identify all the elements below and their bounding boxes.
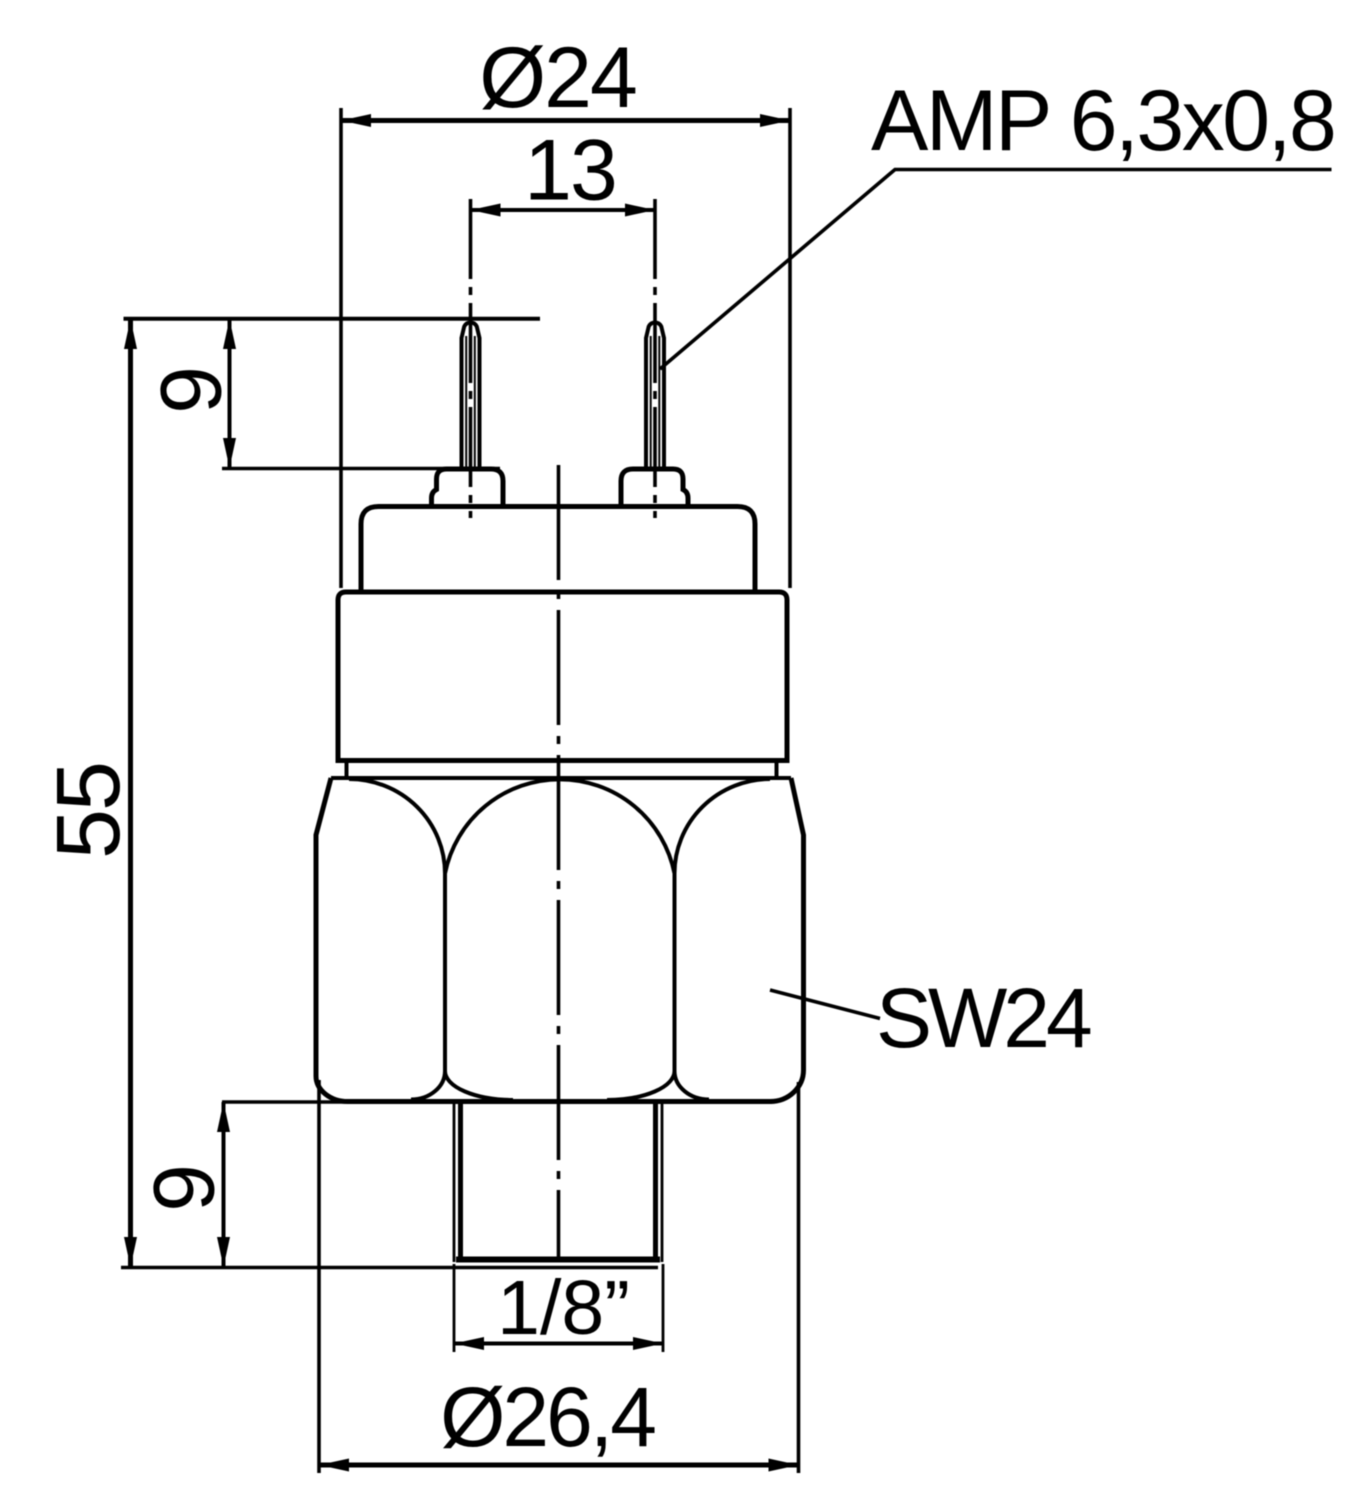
arrowhead 1/8 left	[454, 1337, 484, 1350]
thread core line left	[458, 1104, 463, 1259]
svg-text:AMP 6,3x0,8: AMP 6,3x0,8	[871, 73, 1334, 169]
dimension 9 bottom line	[222, 1102, 226, 1267]
dimension 1/8 line	[454, 1342, 663, 1346]
arrowhead Ø24 left	[341, 114, 371, 127]
hex face edge right	[673, 874, 677, 1072]
arrowhead 13 left	[471, 204, 501, 217]
arrowhead Ø24 right	[760, 114, 790, 127]
arrowhead Ø26,4 right	[769, 1459, 799, 1472]
hex face edge left	[443, 874, 447, 1072]
svg-text:Ø24: Ø24	[479, 30, 636, 126]
leader SW24	[770, 990, 880, 1019]
thread crest line right	[661, 1104, 664, 1262]
extension line top (9/55 upper)	[124, 317, 541, 321]
leader AMP	[660, 170, 1332, 370]
arrowhead 9 bottom down	[217, 1237, 230, 1267]
centerline right pin	[653, 199, 657, 518]
arrowhead 1/8 right	[633, 1337, 663, 1350]
flange band outline	[338, 592, 787, 761]
arrowhead Ø26,4 left	[319, 1459, 349, 1472]
dimension 1/8 extension lines	[454, 1264, 663, 1352]
hex bottom edge	[347, 1099, 772, 1104]
svg-text:Ø26,4: Ø26,4	[440, 1370, 655, 1464]
svg-text:1/8”: 1/8”	[497, 1265, 630, 1351]
dimension Ø24 line	[341, 118, 790, 123]
hex bottom arc left-left	[411, 1071, 445, 1100]
arrowhead 55 up	[124, 319, 137, 349]
pin right outline	[646, 323, 664, 470]
arrowhead 13 right	[625, 204, 655, 217]
pin left inner lines	[466, 336, 475, 469]
neck right	[775, 761, 779, 779]
svg-text:SW24: SW24	[876, 971, 1091, 1065]
svg-text:9: 9	[137, 1166, 233, 1212]
dimension 55 line	[128, 319, 133, 1267]
hex bottom arc left-right	[445, 1071, 513, 1100]
hex bottom arc right-left	[607, 1071, 675, 1100]
hex left outline	[316, 778, 348, 1102]
hex crown arc left	[349, 779, 445, 874]
arrowhead 9 top down	[223, 438, 236, 468]
thread crest line left	[453, 1104, 456, 1262]
hex top edge	[331, 776, 791, 780]
hex bottom arc right-right	[675, 1071, 710, 1100]
centerline main vertical axis	[557, 465, 561, 1261]
centerline left pin	[469, 199, 473, 518]
terminal boss left	[432, 469, 504, 507]
arrowhead 9 top up	[223, 319, 236, 349]
dimension Ø26,4 extension lines	[319, 1080, 799, 1473]
extension line 9 lower / boss top	[222, 467, 500, 471]
pin left outline	[462, 323, 480, 470]
hex crown arc center	[445, 779, 675, 873]
hex crown arc right	[675, 779, 771, 874]
dimension 9 top line	[228, 319, 232, 468]
dimension 13 line	[471, 208, 656, 212]
dimension Ø24 extension lines	[341, 108, 790, 588]
terminal boss right	[621, 469, 688, 507]
svg-text:9: 9	[144, 368, 240, 414]
svg-text:55: 55	[39, 763, 139, 859]
svg-text:13: 13	[524, 123, 616, 219]
extension line 9 bottom upper	[222, 1100, 352, 1104]
arrowhead 55 down	[124, 1237, 137, 1267]
extension line bottom (55/9 lower)	[121, 1266, 658, 1270]
dimension Ø26,4 line	[319, 1463, 799, 1468]
hex right outline	[770, 778, 804, 1102]
stub bottom edge	[456, 1257, 660, 1263]
cap housing top outline	[361, 507, 755, 593]
neck left	[345, 761, 349, 779]
arrowhead 9 bottom up	[217, 1102, 230, 1132]
thread core line right	[653, 1104, 658, 1259]
pin right inner lines	[651, 336, 660, 469]
